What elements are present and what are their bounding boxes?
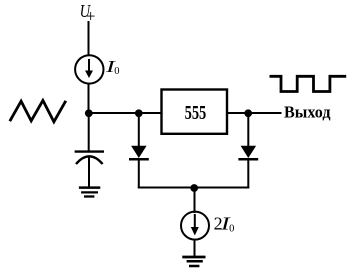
capacitor C1 [75,152,104,164]
wire bottom rail [138,187,250,189]
node D junction dot (bottom rail) [190,184,198,192]
IC U1 555 timer box [162,90,228,134]
waveform triangle wave [10,100,66,121]
node A junction dot [85,109,93,117]
wire 555 output to Vyhod [227,112,282,114]
diode VD1 (left) [129,113,149,188]
waveform square wave [270,76,347,91]
ground (bottom) [182,257,205,266]
wire capacitor to ground [88,157,90,188]
diode VD2 (right) [238,113,258,188]
svg-text:0: 0 [229,224,234,235]
wire U+ to current source I0 [88,21,90,56]
svg-text:Выход: Выход [284,102,331,121]
ground (left) [79,188,100,197]
svg-text:555: 555 [185,103,207,124]
node B junction dot (left diode tap) [135,109,143,117]
current source I0 [75,55,103,83]
wire current source to ground [194,239,196,257]
svg-text:+: + [86,6,96,25]
wire node A to capacitor [88,113,90,151]
wire node D to current source 2I0 [194,188,196,213]
node C junction dot (right diode tap) [244,109,252,117]
node U+ supply label [80,1,96,26]
label I0 [104,57,119,77]
wire current source to node A [88,83,90,114]
wire node A to 555 box [88,112,162,114]
svg-text:0: 0 [114,66,119,77]
current source 2I0 [181,212,209,240]
label 2I0 [214,213,235,234]
